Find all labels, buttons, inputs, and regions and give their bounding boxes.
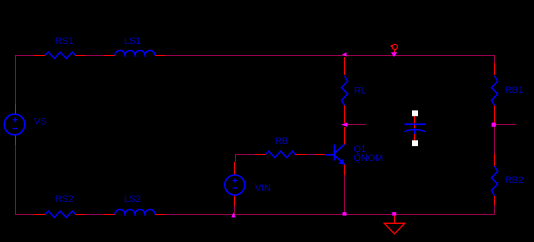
source VS <box>4 104 46 145</box>
junction at node C top (x=344,y=55) <box>342 52 347 56</box>
svg-text:RL: RL <box>354 86 366 97</box>
inductor LS1 <box>104 36 165 57</box>
source VIN <box>225 162 271 206</box>
ground <box>384 215 404 234</box>
svg-text:RB2: RB2 <box>505 175 523 186</box>
inductor LS2 <box>104 194 165 216</box>
wire emitter vertical <box>344 174 345 214</box>
junction ground (x=394,y=214) <box>392 212 396 216</box>
wire right vertical seg3 <box>494 205 495 215</box>
svg-text:VIN: VIN <box>255 183 271 194</box>
wire RB right to base <box>305 154 315 155</box>
svg-text:RB1: RB1 <box>505 85 523 96</box>
wire bottom horizontal seg1 <box>15 214 35 215</box>
junction below port (x=394,y=55) <box>391 52 397 57</box>
junction at node C mid (x=344,y=124) <box>341 122 348 127</box>
wire bottom horizontal seg3 <box>165 214 495 215</box>
svg-text:VS: VS <box>34 117 47 128</box>
resistor RS1 <box>34 36 86 59</box>
wire top horizontal seg1 <box>15 55 35 56</box>
wire right vertical seg1 <box>494 55 495 64</box>
wire bottom horizontal seg2 <box>86 214 105 215</box>
svg-text:RB: RB <box>275 136 288 147</box>
wire mid stub from node C to right <box>344 124 366 125</box>
svg-text:QNOM: QNOM <box>354 153 384 164</box>
junction RB1/RB2 (x=494,y=124) <box>492 123 496 127</box>
wire VIN vertical lower <box>234 205 235 214</box>
wire left vertical <box>15 55 16 215</box>
capacitor C (selected, floating) <box>404 110 425 146</box>
svg-text:RS1: RS1 <box>55 36 73 47</box>
resistor RB1 <box>492 63 524 123</box>
port bubble (top) <box>391 44 398 54</box>
junction VIN bottom (x=234,y=214) <box>231 212 235 217</box>
wire VIN vertical upper <box>235 154 236 162</box>
svg-text:LS2: LS2 <box>124 194 141 205</box>
wire top horizontal seg2 <box>86 55 105 56</box>
resistor RB2 <box>492 154 524 205</box>
junction emitter bottom (x=344,y=214) <box>343 212 347 216</box>
svg-text:RS2: RS2 <box>55 194 73 205</box>
wire mid stub right of RB1/RB2 junction <box>494 124 516 125</box>
wire right vertical seg2 <box>494 123 495 154</box>
transistor Q1 <box>315 127 383 175</box>
svg-text:LS1: LS1 <box>124 36 141 47</box>
resistor RL <box>342 57 367 123</box>
wire top horizontal seg3 <box>165 55 495 56</box>
wire base horizontal to RB <box>235 154 256 155</box>
resistor RS2 <box>34 194 86 218</box>
resistor RB <box>255 136 305 158</box>
